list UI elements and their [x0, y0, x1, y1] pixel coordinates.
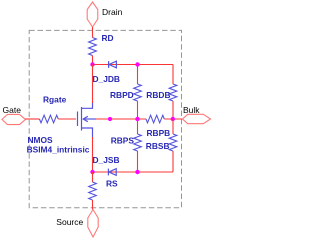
- wire Rgate to NMOS gate: [58, 118, 76, 120]
- port Gate: [2, 114, 26, 124]
- resistor RBSB: [169, 134, 177, 151]
- subcircuit boundary (dashed box): [29, 30, 181, 207]
- diode D_JSB: [108, 169, 116, 176]
- svg-text:Rgate: Rgate: [43, 95, 67, 105]
- svg-text:Gate: Gate: [3, 105, 22, 115]
- wire RD to drain node: [92, 56, 94, 65]
- junction drain node: [90, 62, 94, 66]
- wire RBPD to bulk row: [137, 101, 139, 119]
- wire source node to bottom corner: [93, 171, 174, 173]
- resistor RS: [89, 182, 97, 200]
- junction NMOS bulk: [108, 117, 112, 121]
- wire RBSB to bottom corner: [172, 151, 174, 172]
- diode D_JDB: [109, 61, 117, 68]
- wire RBDB to bulk row: [172, 101, 174, 119]
- svg-text:Source: Source: [56, 217, 83, 227]
- wire bulk row to RBPS: [137, 119, 139, 134]
- wire NMOS drain to drain node: [92, 65, 94, 104]
- port Source: [88, 210, 98, 238]
- wire bulk node to RBSB: [172, 119, 174, 134]
- wire source node to RS: [92, 172, 94, 182]
- wire NMOS source to source node: [92, 137, 94, 172]
- svg-text:Bulk: Bulk: [183, 105, 200, 115]
- svg-text:BSIM4_intrinsic: BSIM4_intrinsic: [27, 144, 90, 154]
- svg-text:RBPD: RBPD: [110, 90, 134, 100]
- wire bulk row: [96, 118, 146, 120]
- resistor RD: [89, 38, 97, 56]
- svg-text:RS: RS: [106, 179, 118, 189]
- wire RS to source port: [92, 200, 94, 210]
- wire top node to RBPD: [137, 65, 139, 85]
- resistor RBPB: [146, 115, 164, 123]
- wire RBPS to bottom row: [137, 151, 139, 172]
- junction bulk-RBPD node: [135, 117, 139, 121]
- resistor Rgate: [39, 115, 58, 123]
- svg-text:RBDB: RBDB: [146, 90, 170, 100]
- svg-text:RBPB: RBPB: [147, 128, 171, 138]
- svg-text:RBSB: RBSB: [146, 141, 170, 151]
- transistor NMOS M1 (BSIM4_intrinsic): [78, 103, 97, 137]
- wire RBPB to bulk node: [164, 118, 182, 120]
- resistor RBDB: [169, 84, 177, 101]
- junction source node: [90, 170, 94, 174]
- wire gate port to Rgate: [26, 118, 40, 120]
- junction top mid node: [135, 62, 139, 66]
- resistor RBPD: [134, 84, 142, 101]
- junction bottom mid node: [135, 170, 139, 174]
- resistor RBPS: [134, 134, 142, 151]
- svg-text:RBPS: RBPS: [111, 136, 135, 146]
- port Bulk: [183, 114, 211, 123]
- wire drain node to bulk-drain column: [93, 64, 174, 66]
- wire top corner to RBDB: [172, 65, 174, 85]
- svg-text:RD: RD: [102, 33, 114, 43]
- junction bulk-RBDB node: [171, 117, 175, 121]
- port Drain: [87, 2, 98, 27]
- svg-text:D_JSB: D_JSB: [93, 155, 120, 165]
- svg-text:Drain: Drain: [102, 7, 123, 17]
- svg-text:D_JDB: D_JDB: [93, 74, 120, 84]
- wire drain port to RD: [92, 27, 94, 38]
